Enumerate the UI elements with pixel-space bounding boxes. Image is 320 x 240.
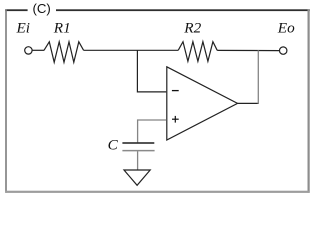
wire R1 to R2: [84, 49, 179, 51]
op-amp U1: [167, 67, 238, 140]
resistor R1: [44, 42, 84, 63]
ground: [124, 170, 150, 185]
svg-text:Eo: Eo: [277, 20, 295, 37]
input terminal Ei: [25, 47, 32, 54]
capacitor C bottom plate: [122, 150, 154, 152]
border frame bottom: [5, 191, 310, 193]
svg-text:C: C: [108, 137, 119, 154]
svg-text:(C): (C): [32, 1, 50, 16]
op-amp plus pin label: [172, 116, 179, 123]
wire capacitor to ground: [137, 151, 139, 170]
output terminal Eo: [280, 47, 287, 54]
wire Ei to R1: [32, 49, 44, 51]
border frame left: [5, 9, 7, 192]
svg-text:Ei: Ei: [16, 20, 31, 37]
wire op-amp output: [238, 102, 259, 104]
wire R2 to Eo: [217, 49, 279, 51]
wire feedback vertical: [257, 50, 259, 104]
svg-text:R1: R1: [53, 20, 71, 37]
wire junction drop to inverting input: [137, 50, 166, 92]
border frame top: [5, 9, 27, 11]
op-amp minus pin label: [172, 90, 179, 92]
svg-text:R2: R2: [183, 20, 201, 37]
resistor R2: [178, 42, 217, 62]
wire non-inverting input: [138, 120, 167, 142]
border frame right: [308, 9, 310, 192]
capacitor C top plate: [122, 142, 154, 144]
